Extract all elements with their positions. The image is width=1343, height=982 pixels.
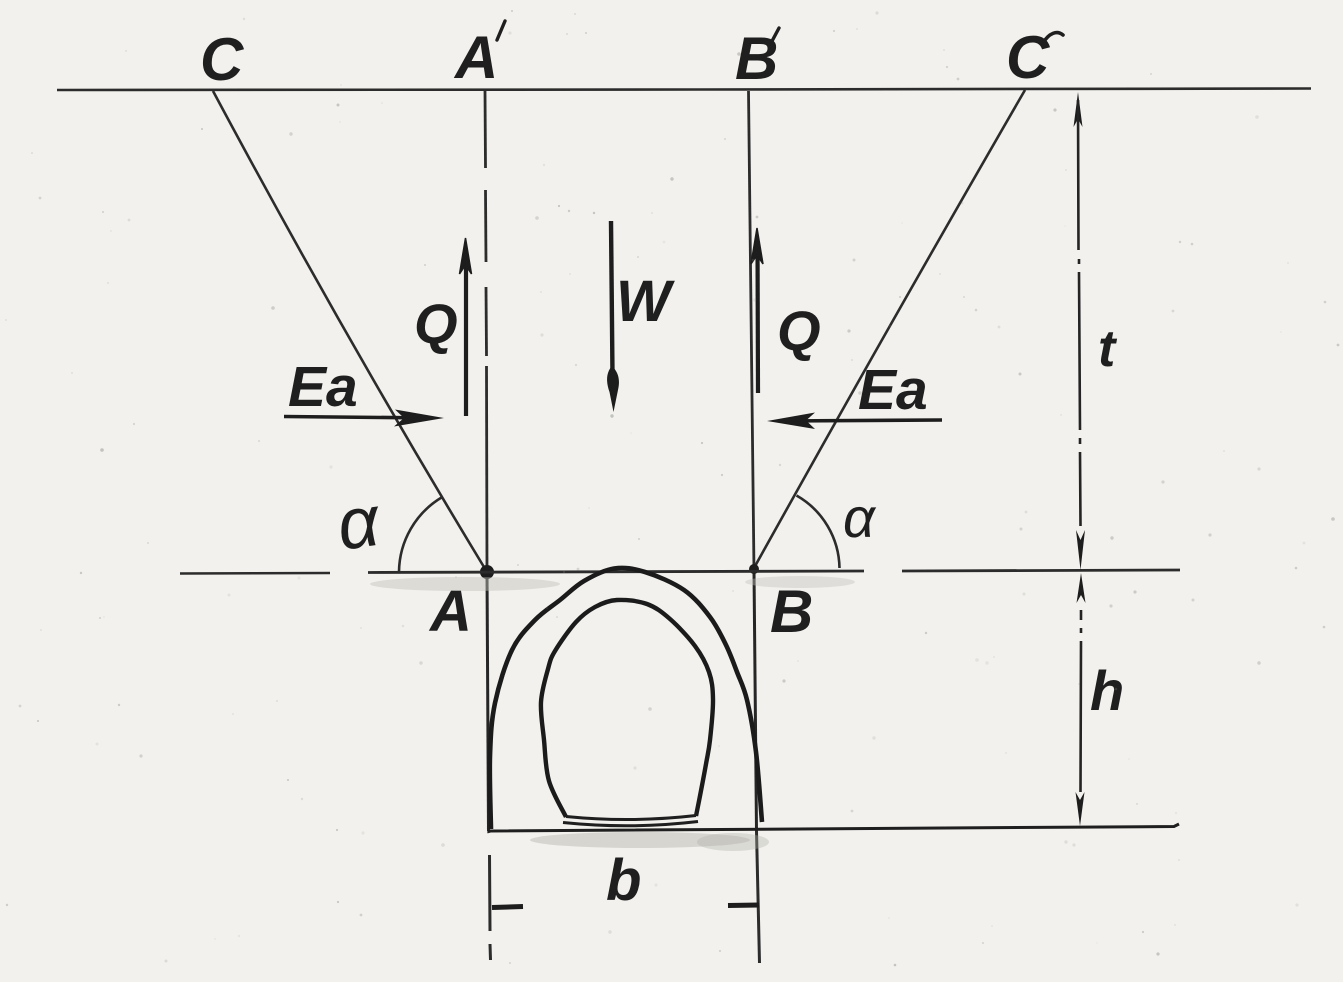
invert slab top curve [566,816,696,820]
force arrow Q left shaft [464,252,468,416]
slip line C' to B [754,90,1025,568]
svg-text:Q: Q [777,299,821,362]
wire A vertical through tunnel [487,573,489,831]
load arrow W shaft [611,221,613,375]
slip line C to A [213,91,487,572]
ground surface top line [57,89,1311,91]
force arrow Q right shaft [755,242,760,393]
dimension t dash-dot line [1078,100,1081,526]
svg-text:W: W [616,269,675,334]
node B junction blob [749,564,759,574]
wire B vertical below base [757,831,760,963]
earth pressure Ea left shaft [284,417,432,419]
wire A vertical below base [489,831,491,960]
svg-text:h: h [1090,659,1124,722]
svg-text:B: B [770,578,813,645]
angle arc at A [399,498,442,572]
svg-text:t: t [1098,320,1118,378]
force arrow Q left head [460,238,472,274]
tunnel outer lining arch [490,568,762,829]
load arrow W head [607,366,619,412]
prime tick of B' [771,28,779,43]
dimension h arrow up at crown line [1077,573,1086,603]
wire A' vertical lower solid to A [485,366,488,573]
invert slab bottom curve [563,822,698,826]
tunnel crown level line centre [368,571,864,573]
prime tick of A' [497,21,505,40]
earth pressure Ea right head [767,413,815,430]
paper shading smudge right of B below base [697,833,769,851]
svg-text:B: B [735,25,778,92]
tunnel crown level line left dash [180,572,330,575]
earth pressure Ea right shaft [780,420,942,421]
svg-text:Q: Q [414,292,458,355]
force arrow Q right head [751,228,763,264]
wire B' vertical [749,91,755,571]
paper shading smudge under crown line at A [370,577,560,591]
svg-text:A: A [453,24,498,91]
svg-text:b: b [606,848,641,913]
angle arc at B [797,496,840,569]
tunnel invert base line [488,824,1179,831]
earth pressure Ea left head [394,410,444,427]
paper shading smudge under crown line at B [745,576,855,588]
dimension h dash-dot line [1079,610,1082,792]
svg-text:α: α [843,486,877,549]
dimension b left tick [492,907,523,908]
wire B vertical through tunnel [754,571,757,831]
paper shading smudge under base line [530,832,750,848]
svg-text:Ea: Ea [858,358,928,422]
dimension b right tick [728,903,759,909]
wire A' vertical dashed upper [484,91,487,168]
svg-text:C: C [1006,24,1051,91]
tunnel crown level line right [902,570,1180,571]
node A junction blob [480,565,494,579]
curl of C' [1043,33,1063,43]
tunnel inner clearance egg [541,600,713,817]
dimension h arrow down at base line [1076,792,1085,826]
dimension t line arrow up top [1074,92,1083,127]
dimension t arrow down at crown line [1076,530,1085,570]
svg-text:Ea: Ea [288,355,358,419]
svg-text:C: C [200,26,245,93]
